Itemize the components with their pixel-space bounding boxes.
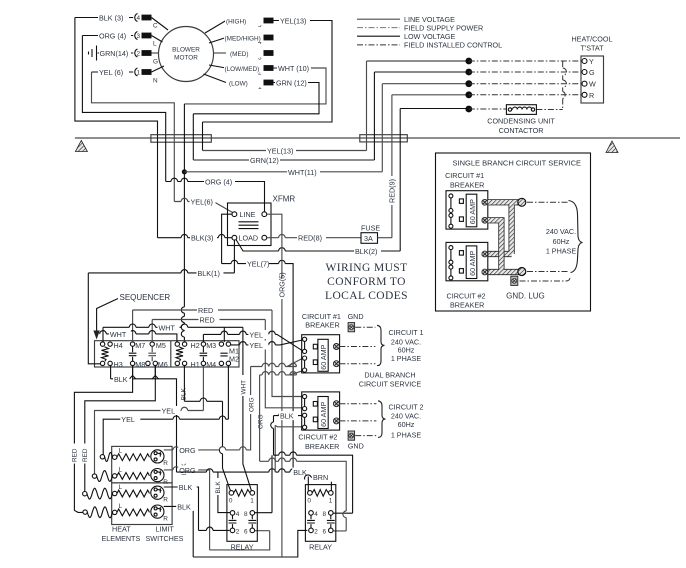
svg-text:WHT: WHT (241, 380, 248, 395)
GND screw circuit 2 (348, 431, 355, 440)
right ground triangle (606, 141, 618, 153)
wire BLK(3) motor row (75, 17, 133, 19)
dash-dot runs to tstat (469, 60, 583, 62)
dual-branch circuit breaker #2 box (302, 392, 340, 430)
svg-text:T'STAT: T'STAT (580, 44, 604, 53)
wire YEL(7) (268, 264, 294, 272)
single-branch breaker #2 (446, 242, 488, 280)
svg-text:GND: GND (348, 312, 364, 321)
wire BLK drop to relay1-4 (218, 472, 230, 512)
svg-text:SINGLE BRANCH CIRCUIT SERVICE: SINGLE BRANCH CIRCUIT SERVICE (453, 159, 582, 168)
svg-text:HEAT/COOL: HEAT/COOL (571, 35, 612, 44)
long chassis line (75, 137, 680, 139)
blower motor circle (159, 27, 214, 82)
label ORG vertical (br1-t3 feed) (246, 395, 255, 414)
wire YEL(6) motor row (92, 71, 134, 73)
motor lead N diagonal (152, 66, 165, 72)
wire BLK row under sequencer (H3R-M8-M6-H1L) (111, 366, 177, 473)
svg-text:BLK(2): BLK(2) (355, 247, 377, 256)
svg-text:FUSE: FUSE (361, 224, 380, 233)
svg-text:WHT: WHT (110, 330, 127, 339)
label RED(9) vertical (387, 176, 397, 205)
legend line voltage (357, 18, 400, 20)
speed tap 3 (MED) (227, 49, 274, 62)
svg-text:BREAKER: BREAKER (450, 181, 484, 190)
motor lead C diagonal (152, 18, 169, 31)
svg-text:CIRCUIT #2: CIRCUIT #2 (298, 433, 337, 442)
svg-text:CONTACTOR: CONTACTOR (499, 126, 544, 135)
sequencer M3/M4 contact (200, 341, 217, 369)
wire WHT row2 (100, 334, 177, 342)
svg-text:CIRCUIT 2: CIRCUIT 2 (388, 402, 423, 411)
motor right diagonals (205, 21, 226, 34)
svg-text:1: 1 (329, 497, 333, 504)
svg-text:(LOW): (LOW) (229, 81, 248, 88)
wire ORG(4) motor row (82, 35, 133, 37)
svg-text:ELEMENTS: ELEMENTS (102, 534, 141, 543)
svg-text:60 AMP: 60 AMP (468, 251, 477, 276)
gnd lug (511, 276, 518, 285)
sequencer box (95, 341, 240, 367)
svg-text:WHT (10): WHT (10) (278, 64, 309, 73)
svg-text:8: 8 (244, 511, 248, 518)
svg-text:M5: M5 (156, 341, 166, 350)
svg-text:DUAL BRANCH: DUAL BRANCH (364, 370, 415, 379)
svg-text:WIRING MUST: WIRING MUST (325, 262, 407, 274)
wire ORG(4) row to xfmr (166, 182, 265, 212)
svg-text:1 PHASE: 1 PHASE (391, 430, 422, 439)
wire YEL(13) row (203, 150, 367, 152)
svg-text:CIRCUIT #2: CIRCUIT #2 (447, 291, 486, 300)
svg-text:(LOW/MED): (LOW/MED) (225, 66, 260, 73)
svg-text:CIRCUIT #1: CIRCUIT #1 (445, 171, 484, 180)
svg-text:1 PHASE: 1 PHASE (546, 246, 577, 255)
dual-branch circuit breaker #1 box (302, 335, 340, 373)
tstat riser Y (366, 61, 368, 151)
svg-text:SWITCHES: SWITCHES (146, 534, 184, 543)
svg-text:RELAY: RELAY (231, 542, 254, 551)
svg-text:GND. LUG: GND. LUG (506, 291, 545, 300)
label WHT vertical (239, 375, 248, 396)
ORG(5) junction on bottom row (281, 556, 283, 559)
label WHT (10) (277, 64, 311, 74)
labels RED vertical left columns (69, 444, 78, 464)
heat element 2 entry terminal (113, 474, 117, 478)
limit switch 2 (151, 469, 168, 486)
dash-dot run to contactor (469, 108, 507, 110)
label BLK vertical (relay1-4 feed) (213, 478, 222, 495)
svg-text:BRN: BRN (313, 473, 328, 482)
wire BLK(3) drop (157, 135, 159, 238)
wire breaker1-t3 row (251, 358, 303, 366)
wire BLK row4 (limit4 to bottom row) (164, 506, 307, 557)
wire BLK(3) left riser to bus (75, 18, 158, 135)
single-branch breaker #1 (446, 191, 488, 229)
label ORG(5) vertical (277, 272, 287, 299)
svg-text:MOTOR: MOTOR (174, 55, 198, 62)
wire GRN(12) row (193, 159, 374, 161)
limit switch 1 (151, 450, 168, 467)
wire GRN(12) drop (192, 114, 194, 160)
wire ORG(4) drop (165, 135, 167, 182)
svg-text:G: G (153, 59, 158, 66)
label BLK vertical on H1-right (178, 382, 187, 402)
heat elements boxes (112, 446, 172, 483)
svg-text:R: R (163, 497, 168, 504)
dash-dot circuit1 feeds (339, 346, 375, 348)
svg-text:CIRCUIT SERVICE: CIRCUIT SERVICE (359, 380, 422, 389)
dash-dot to brace (circuit feeds) (527, 201, 568, 203)
dash-dot circuit2 feeds (339, 403, 376, 405)
svg-text:L: L (153, 41, 157, 48)
sequencer label + leader arrow (93, 293, 170, 340)
legend low voltage (357, 35, 400, 37)
svg-text:BLK(3): BLK(3) (191, 234, 213, 243)
wire WHT(10) long vertical (183, 104, 185, 342)
svg-text:GRN (12): GRN (12) (276, 79, 307, 88)
svg-text:1: 1 (137, 70, 141, 77)
wire BLK(3) row to xfmr load-left (158, 237, 233, 239)
svg-text:CIRCUIT 1: CIRCUIT 1 (388, 328, 423, 337)
svg-text:H3: H3 (114, 360, 123, 369)
heat/cool t'stat box (571, 35, 612, 104)
svg-text:ORG: ORG (179, 466, 196, 475)
hatched conductor A (breaker1+2 to lug 1) (488, 199, 519, 205)
heat element row 2 lead wavy (97, 471, 113, 482)
chassis ground symbol (89, 46, 97, 61)
svg-text:60Hz: 60Hz (398, 345, 415, 354)
wire YEL(6) row to xfmr (174, 201, 213, 203)
brace circuit 1 (377, 325, 385, 365)
svg-text:GRN(14): GRN(14) (100, 49, 129, 58)
svg-text:YEL(13): YEL(13) (280, 17, 306, 26)
sequencer H2/H1 heater (175, 341, 200, 369)
svg-text:WHT(11): WHT(11) (288, 168, 317, 177)
svg-text:BLK (3): BLK (3) (99, 14, 123, 23)
speed tap 2 (LOW/MED) (224, 64, 274, 77)
wire M4 drop YEL row to heat row2 column (95, 366, 204, 474)
svg-text:3A: 3A (364, 234, 373, 243)
svg-text:YEL(7): YEL(7) (247, 260, 269, 269)
wire WHT(11) row (184, 171, 382, 173)
wire YEL(6) drop (173, 135, 175, 202)
svg-text:RED: RED (71, 448, 78, 462)
svg-text:RED(8): RED(8) (298, 234, 322, 243)
wire ORG(5) long vertical (267, 214, 282, 556)
wire YEL row2 (M-pair to breaker1) (231, 340, 303, 345)
heat element 4 coil (117, 509, 150, 516)
heat element 1 coil (117, 454, 150, 461)
wire YEL(6) left riser to bus (92, 72, 175, 135)
tstat terminal W (582, 81, 587, 86)
conductor terminal blob 1 (518, 198, 526, 206)
svg-text:6: 6 (244, 529, 248, 536)
svg-text:RED: RED (200, 316, 215, 325)
dash-dot vertical Y-to-contactor (562, 61, 564, 110)
svg-text:LOAD: LOAD (239, 234, 259, 243)
wire BLK(1) row (88, 273, 234, 364)
svg-text:2: 2 (314, 529, 318, 536)
svg-text:W: W (589, 80, 596, 89)
motor lead G stub (152, 52, 159, 54)
svg-text:0: 0 (307, 497, 311, 504)
label GRN (12) (275, 78, 308, 88)
heat element 3 coil (117, 490, 150, 497)
wire t8-relay1 riser to br2-t3 net (255, 455, 273, 513)
label ORG (4) (98, 31, 131, 41)
wire YEL(7) vertical drop (292, 272, 294, 472)
limit switch 3 (151, 486, 168, 503)
svg-text:ORG: ORG (248, 397, 255, 412)
tstat terminal R (582, 92, 587, 97)
wire M8 drop row to heat row4 column (74, 366, 132, 513)
svg-text:RED: RED (198, 306, 213, 315)
wire breaker1-t4 row to ORG drop (260, 371, 303, 462)
wire YEL(13) drop (202, 122, 204, 151)
sequencer H4/H3 heater (100, 341, 122, 369)
svg-text:ORG (4): ORG (4) (99, 32, 126, 41)
motor lead L diagonal (152, 36, 163, 43)
svg-text:R: R (163, 479, 168, 486)
svg-text:(MED/HIGH): (MED/HIGH) (225, 36, 261, 43)
heat element 2 coil (117, 473, 150, 480)
svg-text:BLK: BLK (179, 483, 193, 492)
svg-text:YEL(13): YEL(13) (267, 147, 293, 156)
wire GRN(14) row (98, 52, 134, 54)
terminal plug L (3) (135, 32, 157, 48)
svg-text:YEL (6): YEL (6) (99, 68, 123, 77)
riser RED(9) (391, 95, 393, 238)
svg-text:(HIGH): (HIGH) (226, 19, 246, 26)
wire RED row2 drop to breaker2 t2 (265, 320, 302, 408)
svg-text:RELAY: RELAY (309, 542, 332, 551)
wire RED row1 (133, 310, 272, 342)
wire BLK row3 (limit3 to relay1-2) (164, 487, 230, 530)
svg-text:CIRCUIT #1: CIRCUIT #1 (302, 312, 341, 321)
limit switch 4 (151, 505, 168, 522)
wire WHT(10) from tap2 (184, 68, 326, 104)
wire ORG row1 (limit1 to breaker1-t3 riser) (164, 367, 251, 450)
tstat terminal G (582, 70, 587, 75)
svg-text:FIELD INSTALLED CONTROL: FIELD INSTALLED CONTROL (404, 41, 502, 50)
speed tap 1 (LOW) (227, 78, 274, 91)
heat element row 4 lead wavy (87, 507, 112, 518)
relay 1 (left) (227, 485, 257, 552)
svg-text:M4: M4 (206, 360, 216, 369)
wire WHT row1 drop + diagonal to relay1-1 (243, 327, 252, 491)
svg-text:BREAKER: BREAKER (305, 442, 339, 451)
wire fuse to RED(9) (378, 237, 392, 239)
svg-text:60Hz: 60Hz (553, 237, 570, 246)
terminal plug N (1) (135, 68, 158, 85)
wire RED(8) row (267, 237, 361, 239)
hatched conductor B (breaker1 lower + breaker2 lower to lug 2) (488, 220, 521, 272)
left ground triangle (75, 141, 87, 152)
wire YEL(13) from tap5 (203, 21, 333, 123)
wire RED row2 (152, 320, 265, 342)
svg-text:60 AMP: 60 AMP (319, 402, 328, 427)
svg-text:BLK: BLK (114, 375, 128, 384)
terminal block left (151, 135, 211, 143)
wire M1-pair riser to WHT row1 (223, 327, 225, 342)
svg-text:2: 2 (137, 51, 141, 58)
svg-text:M6: M6 (158, 360, 168, 369)
wire BLK(2) diag+row (236, 240, 400, 252)
svg-text:BLK(1): BLK(1) (198, 269, 220, 278)
wire br2-t3 BLK row and drop to relay2-8 (274, 416, 353, 514)
legend field installed control (357, 44, 400, 46)
svg-text:BLK: BLK (180, 387, 187, 400)
svg-text:M8: M8 (135, 360, 145, 369)
svg-text:2: 2 (236, 529, 240, 536)
wire WHT row1 (103, 327, 243, 342)
wire M6 drop row to heat row3 column (85, 366, 156, 492)
svg-text:CONDENSING UNIT: CONDENSING UNIT (487, 117, 555, 126)
svg-text:BLK: BLK (177, 502, 191, 511)
tstat riser G (373, 72, 375, 160)
sequencer M1/M2 contacts (219, 342, 239, 366)
riser BLK(2)/contactor (399, 109, 401, 252)
svg-text:(MED): (MED) (230, 51, 248, 58)
svg-text:M3: M3 (206, 341, 216, 350)
svg-text:ORG(5): ORG(5) (278, 272, 287, 297)
tstat terminal Y (582, 59, 587, 64)
svg-text:LOW VOLTAGE: LOW VOLTAGE (404, 32, 455, 41)
transformer XFMR (228, 195, 296, 246)
brace circuit 2 (378, 401, 386, 438)
svg-text:1: 1 (250, 497, 254, 504)
sequencer divider (170, 341, 172, 367)
svg-text:YEL: YEL (162, 407, 176, 416)
svg-text:YEL: YEL (249, 331, 263, 340)
svg-text:LOCAL CODES: LOCAL CODES (325, 290, 408, 302)
svg-text:GND: GND (348, 441, 364, 450)
junction dot WHT(11)/WHT(10) (182, 169, 187, 174)
wire RED row1 drop to breaker2 t1 (272, 310, 302, 397)
svg-text:ORG: ORG (179, 446, 196, 455)
speed tap 4 (MED/HIGH) (224, 33, 274, 46)
svg-text:4: 4 (314, 511, 318, 518)
wire BLK(1) drop from load-left (233, 240, 235, 273)
heat element row 1 lead wavy (105, 453, 113, 462)
wire M2-pair drop YEL row to heat row1 column (103, 366, 228, 455)
svg-text:60 AMP: 60 AMP (319, 344, 328, 369)
terminal plug G (2) (135, 49, 158, 66)
heat element 4 entry terminal (113, 510, 117, 514)
svg-text:CONFORM TO: CONFORM TO (327, 276, 406, 288)
brace 240VAC (569, 201, 583, 273)
svg-text:4: 4 (137, 15, 141, 22)
svg-text:YEL: YEL (249, 341, 263, 350)
condensing unit contactor coil (487, 105, 555, 135)
svg-text:M7: M7 (135, 341, 145, 350)
svg-text:YEL: YEL (121, 415, 135, 424)
svg-text:GRN(12): GRN(12) (250, 156, 279, 165)
svg-text:RED: RED (82, 448, 89, 462)
heat element 1 entry terminal (113, 455, 117, 459)
terminal plug C (4) (135, 14, 158, 30)
wire br2-t4 drop to BLK row (275, 425, 302, 472)
svg-text:R: R (163, 460, 168, 467)
svg-text:ORG (4): ORG (4) (205, 178, 232, 187)
wire YEL row1 (M3 to breaker1) (203, 334, 302, 350)
conductor terminal blob 2 (518, 268, 526, 276)
fuse 3A (361, 224, 380, 244)
xfmr bracket line-left (222, 214, 246, 263)
svg-text:C: C (153, 23, 158, 30)
sequencer M5/M6 contact (146, 341, 168, 369)
wire BLK row to relay2-0 (H1-left net) (177, 472, 309, 491)
junction dots (465, 58, 472, 65)
label YEL (6) (98, 68, 129, 78)
svg-text:BLK: BLK (215, 481, 222, 494)
wiring must conform text (325, 262, 408, 302)
wire BRN row to relay2-1 (305, 475, 332, 491)
svg-text:60 AMP: 60 AMP (468, 199, 477, 224)
wire ORG(4) left riser to bus (82, 36, 165, 135)
svg-text:SEQUENCER: SEQUENCER (120, 293, 171, 302)
label GRN(14) (99, 49, 131, 59)
svg-text:YEL(6): YEL(6) (191, 198, 213, 207)
svg-text:Y: Y (589, 57, 594, 66)
svg-text:H1: H1 (191, 360, 200, 369)
svg-text:N: N (153, 78, 158, 85)
label BLK vertical on H1-left (179, 455, 188, 477)
svg-text:H4: H4 (114, 341, 123, 350)
svg-text:R: R (589, 91, 594, 100)
solid feeder rows to dots (367, 60, 469, 62)
sequencer M7/M8 contact (129, 341, 146, 369)
svg-text:WHT: WHT (159, 323, 176, 332)
legend field supply power (357, 27, 400, 29)
wire gray row to relay2-6 (260, 461, 347, 531)
svg-text:XFMR: XFMR (273, 195, 296, 204)
svg-text:4: 4 (236, 511, 240, 518)
label BLK (3) (98, 13, 129, 23)
wire H1-right BLK row to relay1-0 (184, 366, 230, 491)
svg-text:BLOWER: BLOWER (172, 47, 200, 54)
svg-text:240 VAC.: 240 VAC. (546, 227, 576, 236)
svg-text:3: 3 (137, 33, 141, 40)
wire ORG row2 (limit2 down to relay1-6 via bottom) (164, 470, 270, 550)
svg-text:1 PHASE: 1 PHASE (391, 354, 422, 363)
svg-text:BLK: BLK (280, 412, 294, 421)
svg-text:8: 8 (323, 511, 327, 518)
svg-text:H2: H2 (191, 341, 200, 350)
svg-text:ORG: ORG (257, 414, 264, 429)
svg-text:G: G (589, 68, 595, 77)
terminal block right (360, 135, 408, 142)
svg-text:BREAKER: BREAKER (305, 321, 339, 330)
chevron terminals M8/M6 on BLK row (130, 366, 159, 379)
svg-text:60Hz: 60Hz (398, 420, 415, 429)
heat element row 3 lead wavy (87, 488, 113, 499)
svg-text:6: 6 (323, 529, 327, 536)
heat element 3 entry terminal (113, 491, 117, 495)
svg-text:R: R (163, 515, 168, 522)
label ORG vertical (limit2 drop) (255, 412, 264, 431)
svg-text:HEAT: HEAT (112, 525, 131, 534)
tstat riser W (381, 84, 383, 172)
label YEL(13) top (279, 16, 310, 26)
relay 2 (right) (305, 485, 335, 552)
wire GRN(12) from tap1 (193, 83, 319, 114)
svg-text:LINE: LINE (240, 210, 256, 219)
svg-text:RED(9): RED(9) (388, 179, 397, 203)
svg-text:LIMIT: LIMIT (156, 525, 175, 534)
svg-text:0: 0 (229, 497, 233, 504)
svg-text:BREAKER: BREAKER (450, 301, 484, 310)
